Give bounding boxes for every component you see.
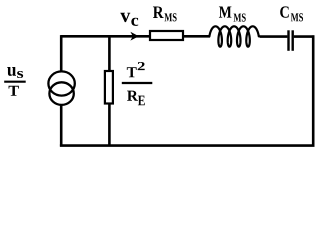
wire top rail left segment <box>61 35 150 38</box>
resistor T^2/R_E <box>105 71 113 104</box>
label C_MS : subscript MS <box>291 13 303 21</box>
label u_s/T : u <box>7 67 16 76</box>
wire middle branch lower <box>108 104 111 147</box>
source u_s/T circle upper <box>48 71 74 95</box>
label R_MS : subscript MS <box>164 13 176 21</box>
wire resistor to inductor <box>184 35 210 38</box>
wire left vertical lower <box>60 104 63 146</box>
wire right vertical <box>312 35 315 146</box>
label M_MS : M <box>219 6 231 17</box>
capacitor C_MS left plate <box>287 30 289 51</box>
inductor M_MS <box>209 26 258 46</box>
wire inductor to capacitor <box>260 35 288 38</box>
label v_c : v <box>120 13 130 22</box>
label v_c : subscript c <box>131 18 138 26</box>
label u_s/T : denominator T <box>9 86 19 96</box>
label u_s/T : fraction bar <box>4 81 26 83</box>
label M_MS : subscript MS <box>234 13 246 21</box>
label T^2/R_E : R <box>127 91 138 101</box>
node vc current arrow <box>130 32 138 41</box>
resistor R_MS <box>150 31 183 40</box>
wire middle branch upper <box>108 35 111 71</box>
label T^2/R_E : superscript 2 <box>138 62 145 70</box>
capacitor C_MS right plate <box>292 30 294 51</box>
label C_MS : C <box>280 6 289 17</box>
label R_MS : R <box>153 6 164 18</box>
wire left vertical upper <box>60 35 63 72</box>
label u_s/T : subscript s <box>17 71 23 78</box>
label T^2/R_E : subscript E <box>138 96 145 106</box>
source u_s/T circle lower <box>49 82 73 105</box>
label T^2/R_E : fraction bar <box>122 82 153 84</box>
wire capacitor to right corner <box>294 35 315 38</box>
label T^2/R_E : T <box>127 67 137 77</box>
wire bottom rail <box>60 144 315 147</box>
